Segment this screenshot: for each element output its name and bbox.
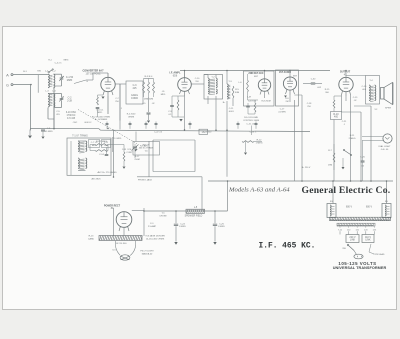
svg-text:AVC BUS: AVC BUS — [92, 178, 102, 181]
svg-text:0.1: 0.1 — [168, 114, 172, 116]
svg-text:PILOT LIGHT: PILOT LIGHT — [140, 251, 154, 253]
svg-text:MEG: MEG — [64, 60, 69, 62]
svg-text:6D6: 6D6 — [173, 74, 178, 77]
svg-text:MMF: MMF — [67, 79, 73, 82]
svg-text:600 V: 600 V — [366, 207, 372, 209]
svg-text:L-3: L-3 — [45, 91, 49, 93]
svg-text:AVC B+ 270 OHMS: AVC B+ 270 OHMS — [97, 171, 117, 174]
svg-text:.1: .1 — [120, 108, 123, 110]
svg-text:1 MEG: 1 MEG — [256, 142, 263, 144]
svg-text:R-2 15,000 OHMS: R-2 15,000 OHMS — [92, 117, 111, 119]
svg-text:6B7: 6B7 — [293, 76, 298, 78]
svg-text:1-M: 1-M — [247, 97, 251, 99]
svg-text:2ND DET-AVC: 2ND DET-AVC — [248, 72, 263, 75]
svg-text:110: 110 — [195, 81, 199, 83]
svg-text:465 KC TRANS: 465 KC TRANS — [139, 146, 154, 149]
svg-text:SW: SW — [37, 71, 41, 73]
svg-text:C-13 .01: C-13 .01 — [248, 101, 257, 103]
svg-text:POWER RECT: POWER RECT — [104, 204, 121, 207]
svg-text:415: 415 — [133, 87, 138, 90]
svg-text:.02: .02 — [151, 103, 155, 105]
svg-text:R-5: R-5 — [235, 89, 239, 91]
svg-text:250M: 250M — [134, 159, 139, 161]
svg-text:C-19: C-19 — [353, 97, 358, 99]
svg-text:B+ 250 V: B+ 250 V — [302, 167, 311, 169]
svg-text:VC: VC — [375, 109, 378, 111]
svg-text:G: G — [86, 81, 88, 83]
svg-text:B-1: B-1 — [23, 71, 27, 73]
svg-text:MFD: MFD — [97, 112, 102, 114]
svg-text:6.3: 6.3 — [112, 250, 116, 252]
svg-text:1730 KC: 1730 KC — [67, 115, 76, 117]
svg-text:C-30: C-30 — [311, 79, 316, 81]
svg-text:C-24: C-24 — [180, 223, 186, 225]
svg-text:.05: .05 — [361, 166, 365, 168]
svg-text:T-5: T-5 — [161, 213, 165, 215]
svg-text:MFD: MFD — [92, 145, 97, 147]
svg-text:C-17: C-17 — [280, 109, 285, 111]
svg-text:R-11: R-11 — [350, 135, 355, 137]
svg-text:CPW LEAD: CPW LEAD — [374, 253, 385, 256]
svg-text:R-8 250M: R-8 250M — [261, 101, 270, 103]
svg-text:LINK: LINK — [350, 239, 356, 242]
svg-text:L-6: L-6 — [238, 82, 242, 84]
svg-text:C-4 2.5: C-4 2.5 — [55, 63, 63, 65]
svg-text:120: 120 — [364, 229, 368, 231]
svg-text:CONT: CONT — [126, 152, 133, 154]
svg-text:C-19: C-19 — [122, 149, 127, 151]
svg-text:UNIVERSAL TRANSFORMER: UNIVERSAL TRANSFORMER — [333, 266, 387, 270]
svg-text:B+: B+ — [223, 102, 226, 104]
svg-text:C-14: C-14 — [99, 154, 105, 156]
svg-text:T-4: T-4 — [369, 80, 373, 82]
svg-text:C-11: C-11 — [229, 108, 234, 110]
svg-text:LINK: LINK — [365, 239, 371, 242]
svg-text:115: 115 — [356, 229, 360, 231]
svg-text:C-5: C-5 — [56, 111, 60, 113]
svg-text:.02: .02 — [354, 100, 358, 102]
svg-text:SW: SW — [342, 248, 345, 250]
svg-text:T-1 I.F. TRANS: T-1 I.F. TRANS — [72, 135, 88, 138]
svg-text:2M: 2M — [286, 101, 289, 103]
svg-text:300: 300 — [325, 92, 329, 94]
svg-text:G: G — [6, 83, 9, 87]
svg-text:I.F. 465 KC.: I.F. 465 KC. — [259, 242, 316, 251]
svg-text:L-4: L-4 — [52, 91, 56, 93]
svg-text:600 KC: 600 KC — [85, 122, 92, 124]
svg-text:415: 415 — [56, 114, 60, 116]
svg-text:COND: COND — [131, 97, 138, 100]
svg-text:R-7: R-7 — [328, 150, 332, 152]
svg-text:R-16 300: R-16 300 — [203, 132, 212, 134]
svg-text:OUTPUT: OUTPUT — [340, 71, 351, 74]
svg-text:.05: .05 — [162, 91, 166, 93]
svg-text:C-12: C-12 — [104, 142, 109, 144]
svg-text:50M: 50M — [235, 92, 239, 94]
svg-text:CONTROL 500M: CONTROL 500M — [243, 120, 259, 122]
svg-text:R-17: R-17 — [135, 156, 140, 158]
svg-text:250: 250 — [307, 106, 311, 108]
svg-text:.0001: .0001 — [228, 111, 234, 113]
svg-text:F-1: F-1 — [150, 223, 154, 225]
svg-text:14-210-300 OHMS: 14-210-300 OHMS — [146, 238, 165, 240]
svg-text:MAZDA 40: MAZDA 40 — [142, 252, 153, 255]
svg-text:0.5: 0.5 — [142, 103, 146, 105]
svg-text:15M: 15M — [328, 165, 332, 167]
svg-text:OHMS: OHMS — [128, 117, 135, 119]
svg-text:.002: .002 — [317, 87, 322, 89]
svg-text:PHONO JACK: PHONO JACK — [138, 179, 153, 182]
svg-text:R-13: R-13 — [89, 236, 95, 238]
svg-text:G.E. 40: G.E. 40 — [381, 149, 389, 151]
svg-text:8 MFD: 8 MFD — [218, 226, 225, 228]
svg-text:C-16: C-16 — [362, 86, 368, 88]
svg-text:CAND: CAND — [88, 237, 95, 240]
svg-text:C-7 1.0: C-7 1.0 — [91, 142, 98, 144]
svg-text:2.5 AMP: 2.5 AMP — [148, 225, 157, 228]
svg-text:VOLTAGE DIVIDER: VOLTAGE DIVIDER — [145, 235, 165, 238]
svg-text:MFD: MFD — [161, 94, 166, 96]
svg-text:T-11: T-11 — [338, 229, 343, 231]
svg-text:L-5: L-5 — [194, 207, 198, 209]
svg-text:L-2: L-2 — [52, 70, 56, 72]
svg-text:250: 250 — [115, 101, 119, 103]
svg-text:DIAL LIGHT: DIAL LIGHT — [379, 145, 391, 148]
svg-text:110: 110 — [347, 229, 351, 231]
svg-text:R-1: R-1 — [48, 60, 52, 62]
svg-text:SPKR: SPKR — [385, 108, 391, 110]
svg-text:B+ SCREEN: B+ SCREEN — [95, 119, 108, 121]
svg-text:.006: .006 — [362, 89, 367, 91]
svg-text:.01 MFD: .01 MFD — [278, 112, 286, 114]
svg-text:FIL: FIL — [385, 201, 389, 203]
svg-text:R-3 R-4: R-3 R-4 — [145, 76, 153, 78]
svg-text:1ST AUDIO: 1ST AUDIO — [279, 71, 291, 74]
svg-text:OSC: OSC — [73, 122, 78, 124]
svg-text:C-10: C-10 — [195, 78, 200, 80]
svg-text:600 V: 600 V — [346, 207, 352, 209]
svg-text:C-22 .05: C-22 .05 — [154, 132, 163, 134]
svg-text:.1: .1 — [343, 124, 346, 126]
svg-text:T-2: T-2 — [211, 77, 215, 79]
svg-text:R-9: R-9 — [285, 98, 289, 100]
svg-text:General Electric Co.: General Electric Co. — [302, 185, 391, 196]
svg-text:C-25: C-25 — [219, 223, 225, 225]
svg-text:R-15: R-15 — [325, 89, 330, 91]
svg-text:C-18: C-18 — [307, 103, 312, 105]
svg-text:CONVERTER 6A7: CONVERTER 6A7 — [83, 70, 105, 73]
svg-text:CHOKE: CHOKE — [159, 216, 167, 218]
svg-text:R-14 VOLUME: R-14 VOLUME — [244, 117, 258, 119]
svg-text:2 MEG: 2 MEG — [349, 138, 356, 140]
svg-text:2-28: 2-28 — [67, 99, 72, 102]
svg-text:C-23 .1: C-23 .1 — [250, 132, 258, 134]
svg-text:TO GRID: TO GRID — [113, 138, 122, 140]
svg-text:C-7: C-7 — [115, 98, 119, 100]
svg-text:T-3: T-3 — [228, 81, 232, 83]
svg-text:C-5 415: C-5 415 — [67, 118, 76, 120]
svg-text:T-6: T-6 — [144, 151, 148, 153]
svg-text:R-2 2000: R-2 2000 — [127, 114, 136, 116]
svg-text:A: A — [6, 72, 9, 77]
svg-text:R-12: R-12 — [257, 140, 263, 142]
svg-text:C-21: C-21 — [342, 121, 347, 123]
svg-text:.05 MFD: .05 MFD — [44, 131, 53, 133]
svg-text:400: 400 — [334, 116, 339, 119]
svg-text:14 210 300: 14 210 300 — [116, 243, 128, 245]
svg-text:3-10 OSC: 3-10 OSC — [66, 112, 77, 114]
svg-text:6B7: 6B7 — [254, 76, 259, 78]
svg-text:8 MFD: 8 MFD — [179, 226, 186, 228]
svg-text:125: 125 — [373, 229, 377, 231]
svg-text:SPEAKER FIELD: SPEAKER FIELD — [185, 215, 203, 218]
svg-text:Models A-63 and A-64: Models A-63 and A-64 — [228, 186, 290, 193]
